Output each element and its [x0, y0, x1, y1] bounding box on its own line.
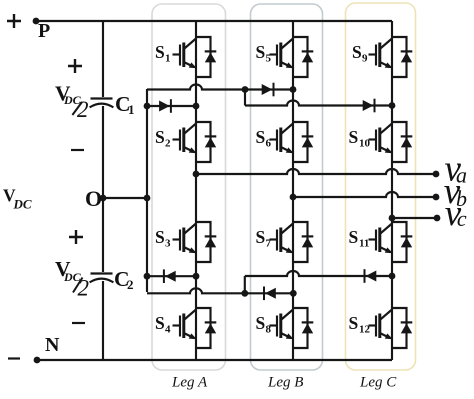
svg-text:12: 12 [359, 324, 371, 336]
svg-text:11: 11 [359, 238, 369, 250]
svg-text:S: S [256, 313, 266, 333]
svg-text:7: 7 [266, 238, 272, 250]
svg-text:S: S [256, 42, 266, 62]
svg-text:S: S [349, 313, 359, 333]
svg-text:N: N [45, 334, 60, 356]
svg-text:Leg A: Leg A [171, 375, 208, 391]
svg-text:S: S [256, 227, 266, 247]
svg-text:c: c [457, 206, 467, 231]
svg-text:Leg B: Leg B [267, 375, 303, 391]
svg-text:2: 2 [127, 277, 134, 292]
svg-text:S: S [155, 127, 165, 147]
svg-text:4: 4 [165, 324, 171, 336]
svg-text:5: 5 [266, 53, 272, 65]
svg-text:1: 1 [128, 102, 135, 117]
svg-text:2: 2 [78, 276, 90, 301]
svg-text:2: 2 [77, 97, 89, 122]
svg-text:S: S [256, 127, 266, 147]
svg-text:S: S [349, 227, 359, 247]
svg-text:6: 6 [266, 138, 272, 150]
svg-text:1: 1 [165, 53, 171, 65]
svg-text:S: S [349, 127, 359, 147]
svg-text:S: S [352, 42, 362, 62]
svg-text:P: P [38, 20, 50, 42]
svg-text:8: 8 [266, 324, 272, 336]
svg-text:DC: DC [13, 197, 32, 212]
svg-text:2: 2 [165, 138, 171, 150]
svg-text:9: 9 [362, 53, 368, 65]
svg-text:Leg C: Leg C [359, 375, 397, 391]
svg-text:S: S [155, 42, 165, 62]
svg-text:10: 10 [359, 138, 371, 150]
svg-text:O: O [85, 186, 102, 211]
svg-text:3: 3 [165, 238, 171, 250]
svg-text:S: S [155, 313, 165, 333]
svg-text:S: S [155, 227, 165, 247]
